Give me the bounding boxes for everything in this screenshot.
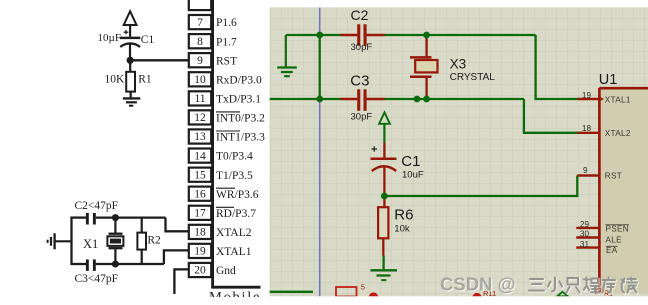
svg-text:19: 19 (194, 246, 206, 258)
pin 6 box (189, 0, 211, 10)
capacitor C1 (polarized) (371, 143, 424, 194)
vcc arrow (124, 11, 137, 25)
pin 30 ALE (576, 230, 622, 245)
watermark (440, 274, 638, 296)
pin 9 box (189, 53, 211, 67)
svg-text:R1: R1 (138, 74, 152, 86)
junction node row2 a (414, 96, 421, 103)
svg-text:16: 16 (194, 188, 206, 200)
svg-text:Mobile: Mobile (209, 290, 261, 305)
svg-text:XTAL2: XTAL2 (605, 129, 631, 138)
svg-text:R6: R6 (394, 207, 413, 224)
pin 15 box (189, 168, 211, 182)
plus sign (124, 31, 129, 33)
svg-text:C1: C1 (141, 34, 155, 46)
svg-text:PSEN: PSEN (606, 224, 630, 233)
pin 12 box (189, 110, 211, 124)
svg-text:CRYSTAL: CRYSTAL (450, 72, 496, 83)
capacitor C2 (341, 7, 385, 53)
wire: row2 left of C3 (270, 98, 341, 100)
pin 20 box (189, 263, 211, 277)
wire bottom rail to pin19 (164, 250, 189, 264)
svg-text:C2<47pF: C2<47pF (75, 200, 119, 212)
pin 19 box (189, 244, 211, 258)
svg-text:29: 29 (580, 220, 590, 229)
svg-text:18: 18 (194, 227, 206, 239)
capacitor C1 (left fig) (120, 38, 140, 60)
svg-text:T1/P3.5: T1/P3.5 (216, 170, 253, 182)
LED dot cut 2 (472, 293, 481, 302)
svg-text:U1: U1 (599, 72, 618, 88)
wire: row1 down-step to XTAL1 (536, 35, 578, 99)
pin 7 box (189, 15, 211, 29)
svg-text:X1: X1 (83, 237, 98, 251)
node junction (127, 57, 134, 64)
svg-text:30pF: 30pF (351, 42, 373, 53)
wire junction to R1 (129, 60, 131, 72)
svg-text:RD/P3.7: RD/P3.7 (216, 208, 256, 220)
svg-text:XTAL1: XTAL1 (605, 95, 631, 104)
component box cut (336, 287, 357, 297)
svg-text:WR/P3.6: WR/P3.6 (216, 189, 259, 201)
svg-text:RST: RST (605, 171, 622, 180)
svg-text:RST: RST (216, 55, 237, 67)
resistor R6 (378, 196, 413, 256)
svg-text:18: 18 (582, 124, 592, 133)
wire: RST run (384, 176, 577, 197)
svg-text:Gnd: Gnd (216, 265, 236, 277)
red marks near chip bottom (595, 285, 597, 295)
wire: row2 down-step to XTAL2 (524, 99, 578, 133)
node bottom rail (112, 261, 119, 268)
wire: row2 right of C3 (385, 98, 524, 100)
LED dot cut (369, 292, 378, 301)
wire: vertical between rails (319, 35, 321, 99)
svg-text:C1: C1 (401, 153, 420, 170)
svg-text:9: 9 (583, 166, 588, 175)
left vertical rail (70, 218, 72, 264)
svg-text:31: 31 (580, 240, 590, 249)
junction node row2/vertical (316, 96, 323, 103)
chip U1 body (599, 72, 648, 294)
svg-text:C3: C3 (350, 73, 369, 90)
junction node crystal top (423, 32, 430, 39)
chip edge vertical (211, 0, 214, 288)
capacitor C3 (341, 73, 385, 123)
svg-text:30pF: 30pF (351, 111, 373, 122)
svg-text:P1.7: P1.7 (216, 36, 237, 48)
bottom rail segments (70, 263, 86, 265)
svg-text:ALE: ALE (606, 235, 623, 244)
wire bottom-left cut (270, 291, 313, 293)
ground (under R6) (371, 256, 398, 281)
svg-text:INT0/P3.2: INT0/P3.2 (216, 113, 265, 125)
pin 19 XTAL1 (577, 91, 631, 104)
wire: top rail row1 left of C2 (286, 34, 341, 36)
wire: top rail row1 right of C2 (385, 34, 536, 36)
resistor R2 (137, 218, 146, 264)
wire to pin 9 (130, 59, 189, 61)
svg-text:EA: EA (606, 246, 618, 255)
svg-text:10k: 10k (394, 223, 410, 234)
power arrow (379, 112, 390, 143)
wire pin20 down (174, 269, 189, 294)
svg-text:XTAL1: XTAL1 (216, 246, 252, 258)
junction node C1/R6 (381, 193, 388, 200)
pin 31 EA (576, 240, 617, 255)
svg-text:INT1/P3.3: INT1/P3.3 (216, 132, 265, 144)
svg-text:9: 9 (197, 55, 203, 67)
svg-text:XTAL2: XTAL2 (216, 227, 252, 239)
svg-text:10K: 10K (105, 74, 126, 86)
pin 29 PSEN (576, 220, 629, 233)
svg-text:TxD/P3.1: TxD/P3.1 (216, 94, 261, 106)
ground (top-left) (277, 35, 297, 76)
svg-text:30: 30 (580, 230, 590, 239)
resistor R1 (126, 72, 135, 92)
svg-text:CSDN @: CSDN @ (440, 274, 516, 295)
svg-text:RxD/P3.0: RxD/P3.0 (216, 74, 262, 86)
svg-text:17: 17 (194, 208, 206, 220)
sheet border (blue line) (319, 8, 321, 297)
wire (129, 25, 131, 37)
top rail segments (70, 216, 86, 218)
pin 16 box (189, 187, 211, 201)
capacitor C3 (left fig) plates (86, 259, 89, 271)
svg-text:7: 7 (197, 17, 203, 29)
svg-text:5: 5 (361, 283, 365, 292)
crystal X3 (410, 35, 495, 99)
svg-text:P1.6: P1.6 (216, 17, 237, 29)
svg-text:10: 10 (194, 74, 206, 86)
capacitor C2 (left fig) plates (86, 213, 89, 225)
pin 10 box (189, 72, 211, 86)
svg-text:14: 14 (194, 150, 206, 162)
pin 9 RST (577, 166, 622, 181)
arrow tip cut (557, 292, 568, 297)
junction node crystal bottom (423, 96, 430, 103)
sideways ground (48, 233, 72, 249)
svg-text:C2: C2 (351, 7, 369, 23)
pin 17 box (189, 206, 211, 220)
pin 18 box (189, 225, 211, 239)
svg-text:R2: R2 (147, 235, 161, 247)
svg-text:T0/P3.4: T0/P3.4 (216, 151, 253, 163)
svg-text:C3<47pF: C3<47pF (75, 273, 119, 285)
crystal X1 (107, 218, 123, 264)
ground (under R1) (123, 92, 140, 106)
pin 18 XTAL2 (577, 124, 631, 138)
svg-text:12: 12 (194, 112, 206, 124)
svg-text:20: 20 (194, 265, 206, 277)
junction node row1/vertical (316, 32, 323, 39)
svg-text:13: 13 (194, 131, 206, 143)
svg-text:10µF: 10µF (98, 32, 121, 44)
svg-text:11: 11 (194, 93, 205, 105)
svg-text:10uF: 10uF (402, 169, 424, 180)
schematic sheet background (270, 8, 648, 297)
pin 14 box (189, 149, 211, 163)
pin 8 box (189, 34, 211, 48)
wire top rail to pin18 (166, 218, 190, 232)
pin 11 box (189, 91, 211, 105)
svg-text:15: 15 (194, 169, 206, 181)
node top rail (112, 214, 119, 221)
svg-text:8: 8 (197, 36, 203, 48)
svg-text:19: 19 (582, 91, 592, 100)
chip bottom edge (211, 286, 260, 289)
svg-text:X3: X3 (450, 56, 467, 71)
pin 13 box (189, 129, 211, 143)
